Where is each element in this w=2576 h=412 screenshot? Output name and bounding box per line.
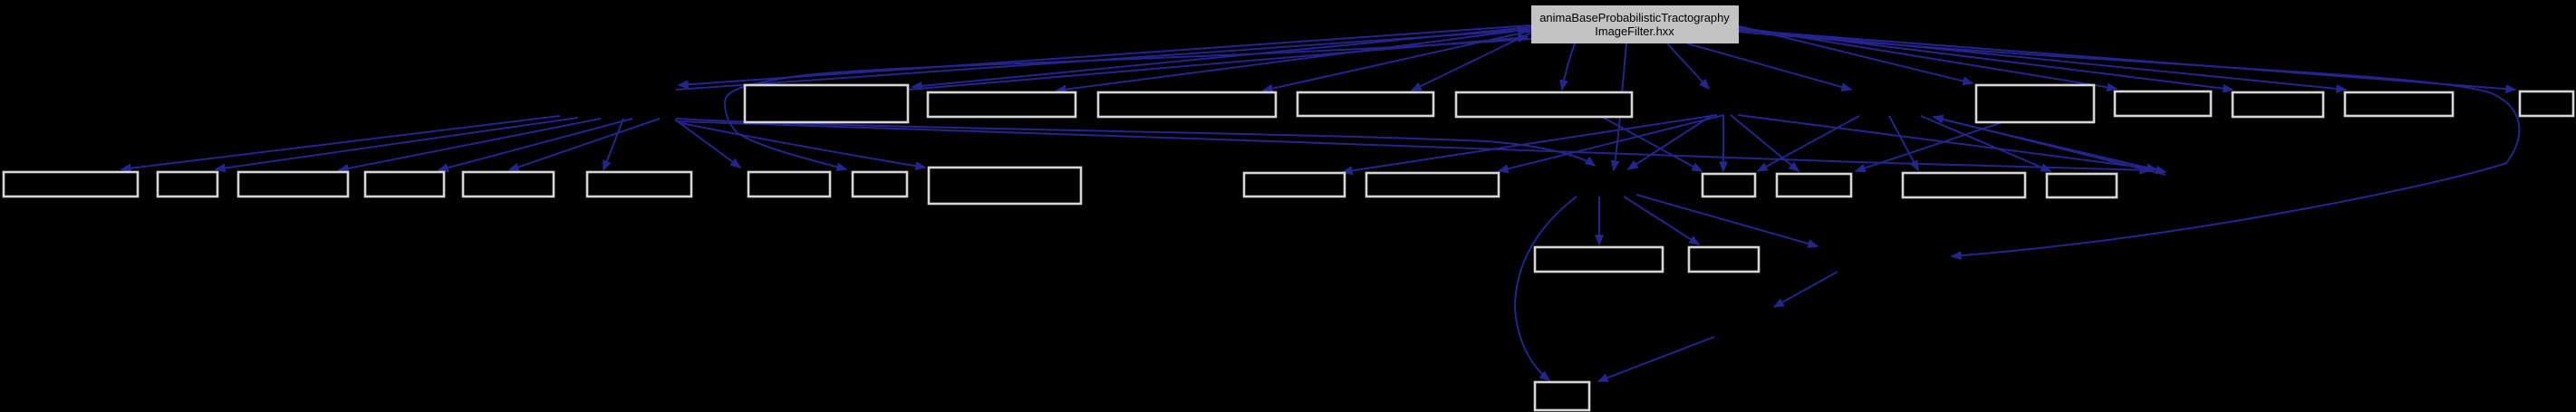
svg-text:ImageFilter.hxx: ImageFilter.hxx: [1595, 24, 1674, 38]
svg-text:animaBaseProbabilisticTractogr: animaBaseProbabilisticTractography: [1539, 11, 1730, 24]
